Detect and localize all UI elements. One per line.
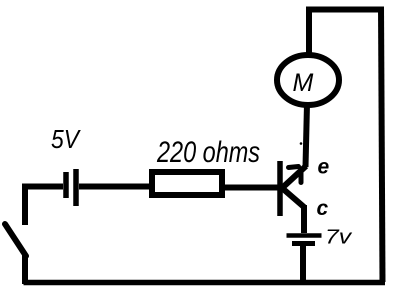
svg-text:220 ohms: 220 ohms	[156, 136, 260, 169]
battery B1 5V positive plate (long)	[73, 169, 79, 206]
wire switch to battery (left vertical upper)	[22, 185, 28, 225]
motor M1	[277, 55, 339, 105]
wire resistor to transistor base	[225, 185, 278, 191]
wire motor top lead	[306, 10, 312, 57]
resistor R1 body	[152, 172, 222, 195]
battery B2 7v negative plate (short)	[292, 241, 315, 246]
wire battery 5V to resistor	[79, 184, 150, 190]
wire right rail	[381, 7, 383, 283]
switch S1 lever (open)	[5, 224, 26, 256]
wire switch to bottom rail (left vertical lower)	[22, 255, 28, 284]
transistor Q1 collector diagonal	[282, 188, 304, 207]
transistor Q1 emitter arrowhead barb down	[299, 173, 304, 183]
svg-text:5V: 5V	[51, 124, 81, 154]
svg-text:c: c	[317, 197, 329, 220]
wire top (motor top node to right rail)	[306, 7, 384, 13]
battery B1 5V negative plate (short)	[63, 172, 69, 198]
wire bottom rail	[24, 280, 386, 286]
transistor Q1 emitter diagonal	[281, 166, 306, 189]
transistor Q1 base bar	[277, 161, 283, 216]
wire collector to battery 7v	[301, 205, 307, 233]
svg-text:e: e	[318, 156, 330, 179]
wire motor bottom lead to emitter	[306, 104, 308, 167]
svg-text:M: M	[293, 69, 314, 97]
battery B2 7v positive plate (long)	[287, 233, 322, 238]
transistor Q1 emitter arrowhead barb left	[289, 167, 299, 168]
wire battery 7v to bottom rail	[300, 246, 306, 284]
stray ink dot	[300, 142, 303, 145]
svg-text:7v: 7v	[325, 227, 352, 249]
wire battery 5V left lead	[22, 184, 63, 190]
